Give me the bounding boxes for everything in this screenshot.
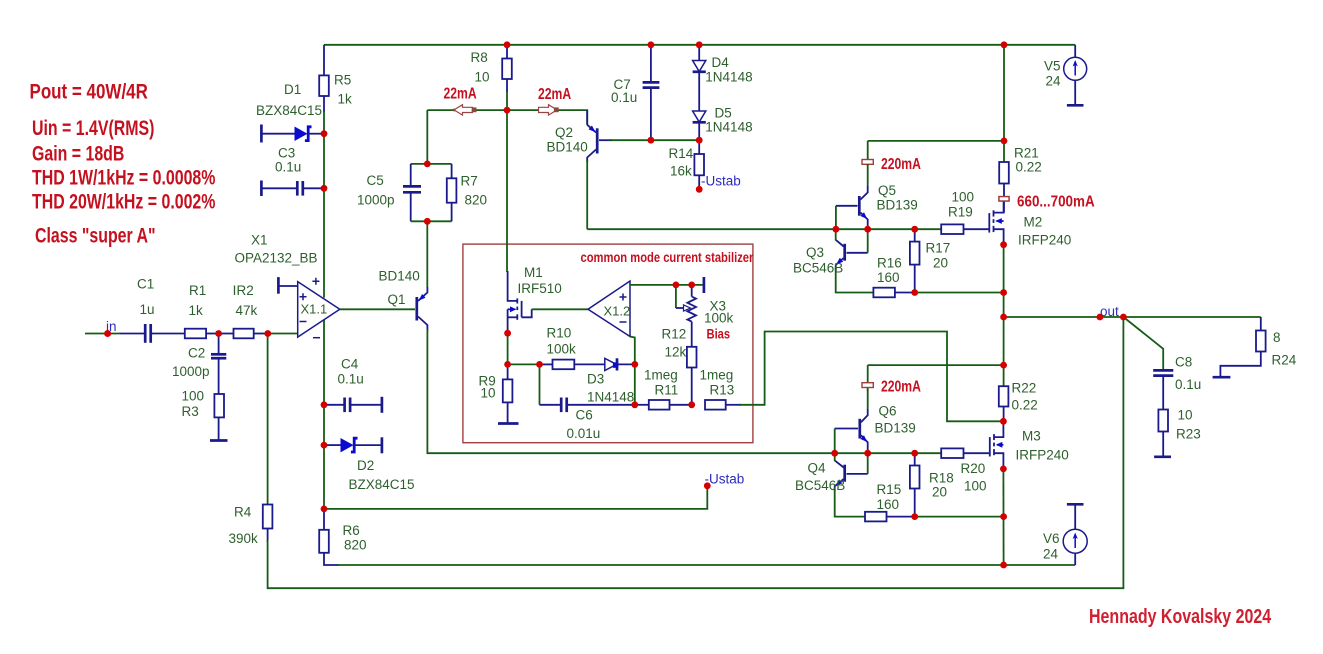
ground (R3): [210, 439, 228, 442]
node: M2 source junction: [1000, 241, 1007, 248]
svg-text:R4: R4: [234, 505, 252, 520]
wire: -Ustab line y=508.9: [324, 486, 707, 509]
resistor R24 8: [1220, 317, 1296, 377]
current probe marker rect redrawn above M2 drain wire: [999, 197, 1009, 201]
svg-text:0.01u: 0.01u: [567, 426, 601, 441]
capacitor C2 1000p: [172, 334, 226, 395]
diode D2 BZX84C15 (zener, terminal stub at right): [326, 437, 415, 492]
capacitor C1 1u: [120, 277, 185, 343]
node: C7 top rail junction: [648, 41, 655, 48]
node: D4 top rail junction: [696, 41, 703, 48]
resistor R2 47k: [219, 283, 268, 338]
node: C5/R7 top junction: [424, 161, 431, 168]
wire: out wire y=317: [1004, 316, 1261, 318]
resistor R1 1k: [185, 283, 219, 338]
wire: C5/R7 bottom to Q1 emitter: [426, 221, 428, 287]
resistor R23 10: [1158, 408, 1200, 457]
svg-text:0.22: 0.22: [1016, 160, 1042, 175]
wire: Q2 collector down to upper bias wire: [586, 160, 588, 229]
box: common mode current stabilizer: [463, 244, 754, 443]
svg-text:R6: R6: [343, 523, 360, 538]
node: D3/X1.2 inverting junction: [631, 361, 638, 368]
node: negative rail junction: [1000, 562, 1007, 569]
node: D2 junction: [321, 442, 328, 449]
node: X3 wiper junction: [673, 282, 680, 289]
svg-text:660...700mA: 660...700mA: [1017, 194, 1095, 211]
node: R18 top junction: [911, 450, 918, 457]
svg-text:R20: R20: [961, 461, 986, 476]
node -Ustab (bottom port): [704, 472, 744, 490]
resistor R16 160: [873, 256, 914, 298]
wire: D2 node to -Ustab node: [323, 445, 325, 509]
svg-text:R2: R2: [237, 283, 254, 298]
svg-text:M3: M3: [1022, 429, 1041, 444]
wire: lower bias wire continues to R20: [835, 452, 942, 454]
svg-text:20: 20: [933, 256, 948, 271]
diode D1 BZX84C15 (zener, terminal stub at left): [256, 82, 322, 143]
node: R22 top junction: [1000, 362, 1007, 369]
node: C3 junction: [321, 185, 328, 192]
svg-text:R24: R24: [1272, 353, 1297, 368]
svg-text:-Ustab: -Ustab: [705, 472, 745, 487]
node: Q6 base/Q4 collector junction: [831, 450, 838, 457]
node: out column junction: [1000, 314, 1007, 321]
wire: 22mA wire left branch: [427, 109, 507, 111]
svg-text:C1: C1: [137, 277, 154, 292]
wire: C6 branch down: [539, 364, 541, 404]
node out (port): [1097, 304, 1120, 320]
capacitor C5 1000p (parallel with R7): [357, 164, 452, 221]
wire: top positive rail y=44.8: [324, 44, 1075, 46]
svg-text:0.1u: 0.1u: [611, 90, 637, 105]
svg-text:IRFP240: IRFP240: [1016, 448, 1069, 463]
wire: rail corner down to R5: [323, 45, 325, 76]
svg-text:C2: C2: [188, 346, 205, 361]
svg-text:10: 10: [1178, 408, 1193, 423]
svg-text:820: 820: [465, 193, 488, 208]
wire: opamp X1.1 output to Q1 base: [340, 308, 415, 310]
node: C6/R11 junction: [631, 401, 638, 408]
resistor R6 820: [319, 509, 366, 565]
transistor Q4 BC546B (NPN, mirrored): [795, 453, 868, 493]
svg-text:Hennady Kovalsky 2024: Hennady Kovalsky 2024: [1089, 604, 1272, 627]
svg-text:1000p: 1000p: [357, 193, 395, 208]
mosfet M3 IRFP240: [990, 421, 1069, 469]
svg-text:Q1: Q1: [388, 292, 406, 307]
resistor R5 1k: [319, 73, 352, 113]
annotation signature: Hennady Kovalsky 2024: [1089, 604, 1272, 627]
wire: opamp X1.2 output to M1 gate: [532, 308, 588, 310]
current probe marker 220mA (upper): [862, 141, 921, 174]
op-amp X1.2 (mirrored, output at left): [588, 281, 630, 337]
svg-text:1N4148: 1N4148: [587, 390, 634, 405]
resistor R22 0.22: [999, 381, 1038, 422]
wire: R5 bottom to D1 node: [323, 112, 325, 134]
wire: upper bias wire y=229.2: [587, 228, 941, 230]
svg-text:M2: M2: [1024, 215, 1043, 230]
svg-text:X1: X1: [251, 233, 268, 248]
svg-text:1meg: 1meg: [644, 368, 678, 383]
resistor R7 820: [447, 164, 487, 221]
svg-text:R12: R12: [662, 327, 687, 342]
svg-text:C5: C5: [367, 173, 384, 188]
resistor R21 0.22: [999, 146, 1042, 213]
wire: Q1 collector down and right to lower bias wire: [427, 329, 835, 453]
svg-text:out: out: [1100, 304, 1119, 319]
svg-text:V6: V6: [1043, 531, 1060, 546]
node: R21 top junction: [1001, 138, 1008, 145]
svg-text:THD 20W/1kHz = 0.002%: THD 20W/1kHz = 0.002%: [32, 190, 216, 214]
svg-text:R3: R3: [182, 404, 199, 419]
node: R8 top rail junction: [504, 41, 511, 48]
resistor R14 16k: [669, 140, 705, 189]
svg-text:R15: R15: [877, 482, 902, 497]
terminal stub (pot top): [703, 277, 706, 293]
svg-text:0.1u: 0.1u: [1175, 377, 1201, 392]
wire: 22mA node down to C5/R7 top: [426, 110, 428, 164]
svg-text:20: 20: [932, 485, 947, 500]
capacitor C8 0.1u: [1153, 355, 1201, 410]
mosfet M1 IRF510 (gate at right): [508, 265, 562, 334]
wire: X1.2 noninverting input wire to pot: [630, 284, 704, 286]
svg-text:R23: R23: [1176, 427, 1201, 442]
wire: Q4 emitter down to bottom wire: [835, 489, 865, 517]
wire: D1 node to C3 node: [323, 134, 325, 189]
node: X3 top junction: [688, 282, 695, 289]
diode D3 1N4148: [587, 358, 635, 404]
svg-text:IRF510: IRF510: [518, 281, 562, 296]
svg-text:IRFP240: IRFP240: [1018, 233, 1071, 248]
svg-text:Bias: Bias: [707, 326, 731, 341]
svg-text:10: 10: [475, 70, 490, 85]
svg-text:D5: D5: [715, 106, 732, 121]
wire: C3 node down to opamp supply: [323, 188, 325, 297]
svg-text:C4: C4: [341, 357, 359, 372]
svg-text:220mA: 220mA: [881, 378, 921, 396]
svg-text:1k: 1k: [338, 92, 353, 107]
svg-text:1000p: 1000p: [172, 364, 210, 379]
wire: R10 node wire: [508, 363, 540, 365]
node: C7 bottom junction: [648, 137, 655, 144]
svg-text:R16: R16: [877, 256, 902, 271]
node: R11/R12/R13 junction: [688, 401, 695, 408]
node: R15/R18 junction: [911, 513, 918, 520]
svg-text:Uin = 1.4V(RMS): Uin = 1.4V(RMS): [32, 117, 154, 141]
svg-text:Q2: Q2: [555, 125, 573, 140]
svg-text:X1.2: X1.2: [604, 304, 631, 319]
resistor R3 100: [182, 389, 225, 441]
svg-text:R14: R14: [669, 146, 694, 161]
svg-text:820: 820: [344, 538, 367, 553]
capacitor C6 0.01u: [540, 398, 635, 442]
resistor R20 100: [941, 448, 990, 493]
annotation: Uin = 1.4V(RMS): [32, 117, 154, 141]
svg-text:C6: C6: [576, 408, 593, 423]
op-amp X1.1 OPA2132_BB: [235, 233, 340, 338]
transistor Q1 BD140 (PNP): [379, 269, 428, 332]
annotation: Gain = 18dB: [32, 142, 124, 166]
resistor R18 20: [910, 453, 954, 516]
svg-text:M1: M1: [524, 265, 543, 280]
ground (R24): [1213, 376, 1231, 379]
wire: negative rail y=565: [337, 564, 1075, 566]
annotation: THD 20W/1kHz = 0.002%: [32, 190, 216, 214]
svg-text:47k: 47k: [236, 303, 258, 318]
svg-text:BD139: BD139: [875, 421, 916, 436]
node: C5/R7 bottom junction: [424, 218, 431, 225]
annotation: THD 1W/1kHz = 0.0008%: [32, 166, 216, 190]
svg-text:R7: R7: [461, 174, 478, 189]
svg-text:common mode current stabilizer: common mode current stabilizer: [581, 250, 754, 265]
diode D5 1N4148: [693, 106, 753, 141]
node: in port: [104, 330, 111, 337]
node -Ustab (upper port): [696, 174, 741, 193]
svg-text:390k: 390k: [229, 531, 259, 546]
node: M3 bottom junction: [1000, 466, 1007, 473]
svg-text:Q6: Q6: [879, 404, 897, 419]
node in (port): [104, 319, 116, 337]
node: R1/R2/C2 junction: [215, 330, 222, 337]
wire: M1 source to R10 node: [507, 333, 509, 364]
svg-text:1N4148: 1N4148: [705, 70, 752, 85]
svg-text:OPA2132_BB: OPA2132_BB: [235, 251, 318, 266]
node: 22mA junction: [504, 107, 511, 114]
svg-text:BC546B: BC546B: [795, 478, 845, 493]
node: main column top rail junction: [1001, 41, 1008, 48]
node: -Ustab wire junction: [321, 506, 328, 513]
svg-text:100k: 100k: [547, 342, 577, 357]
resistor R13 1meg: [700, 368, 742, 410]
node: R22/M3 junction: [1000, 418, 1007, 425]
wire: input stub: [85, 333, 120, 335]
resistor R10 100k: [540, 326, 605, 370]
svg-text:10: 10: [481, 386, 496, 401]
svg-text:C8: C8: [1175, 355, 1192, 370]
current probe marker 220mA (lower): [862, 365, 921, 396]
wire: out column down to R22: [1003, 317, 1005, 386]
annotation: Pout = 40W/4R: [30, 80, 148, 104]
resistor R17 20: [910, 229, 950, 292]
svg-text:R1: R1: [189, 283, 206, 298]
svg-text:BD140: BD140: [547, 140, 588, 155]
current arrow 22mA (left): [444, 85, 477, 115]
svg-text:R21: R21: [1014, 146, 1039, 161]
resistor R9 10: [479, 364, 513, 423]
resistor R12 12k: [662, 327, 697, 405]
current source V6 24: [1043, 504, 1087, 565]
resistor R19 100: [941, 190, 989, 235]
svg-text:1k: 1k: [189, 303, 204, 318]
node: R9/R10 junction: [504, 361, 511, 368]
svg-text:D2: D2: [357, 458, 374, 473]
node: R2/R4 feedback junction: [264, 330, 271, 337]
wire: M3 drain down to bottom wire and rail: [1002, 469, 1004, 565]
svg-text:12k: 12k: [665, 345, 687, 360]
svg-text:Pout = 40W/4R: Pout = 40W/4R: [30, 80, 148, 104]
node: Q6 emitter/Q4 base junction: [864, 450, 871, 457]
svg-text:100: 100: [182, 389, 205, 404]
svg-text:R8: R8: [471, 50, 488, 65]
svg-text:100k: 100k: [704, 311, 734, 326]
wire: Q5 collector rail y=141: [868, 140, 1004, 142]
transistor Q3 BC546B (NPN, mirrored): [793, 229, 868, 275]
wire: feedback line bottom y=588.2: [268, 317, 1124, 588]
node: out/feedback junction: [1120, 314, 1127, 321]
svg-text:Q4: Q4: [808, 461, 827, 476]
svg-text:160: 160: [877, 270, 900, 285]
wire: R2 to opamp inverting input: [268, 333, 298, 335]
wire: M2 source down to out node: [1003, 245, 1005, 317]
node: D5/R14 junction: [696, 137, 703, 144]
wire: bottom wire of lower cell to main column: [915, 516, 1004, 518]
svg-text:22mA: 22mA: [444, 85, 477, 103]
resistor R11 1meg: [635, 368, 692, 410]
svg-text:R11: R11: [655, 383, 679, 398]
node: R16/R17 junction: [911, 289, 918, 296]
svg-text:Q5: Q5: [878, 183, 896, 198]
wire: Q6 collector rail y=365.1: [868, 364, 1004, 366]
svg-text:C3: C3: [278, 146, 295, 161]
svg-text:1N4148: 1N4148: [705, 120, 752, 135]
svg-text:24: 24: [1046, 74, 1062, 89]
svg-text:BD140: BD140: [379, 269, 420, 284]
svg-text:R17: R17: [926, 241, 951, 256]
transistor Q2 BD140 (PNP): [547, 110, 613, 162]
resistor R15 160: [865, 482, 915, 521]
transistor Q6 BD139 (NPN): [835, 389, 916, 453]
wire: diagonal from out junction to C8: [1123, 317, 1163, 370]
svg-text:160: 160: [877, 497, 900, 512]
wire: R13 out of box, up and right to M3 drain node: [739, 332, 1003, 422]
svg-text:BZX84C15: BZX84C15: [349, 477, 415, 492]
svg-text:8: 8: [1273, 330, 1281, 345]
svg-text:100: 100: [964, 479, 987, 494]
wire: Q2 base to C7/D5 node: [610, 139, 699, 141]
svg-text:D3: D3: [587, 372, 604, 387]
annotation: Class "super A": [35, 224, 156, 248]
svg-text:D1: D1: [284, 82, 301, 97]
svg-text:R22: R22: [1012, 381, 1037, 396]
transistor Q5 BD139 (NPN): [836, 164, 918, 229]
resistor R8 10: [471, 45, 512, 92]
node: upper cell bottom junction: [1000, 289, 1007, 296]
svg-text:THD 1W/1kHz = 0.0008%: THD 1W/1kHz = 0.0008%: [32, 166, 216, 190]
wire: Q3 emitter down to bottom wire: [836, 268, 874, 293]
node: M1 source junction: [504, 330, 511, 337]
ground (R9): [498, 422, 519, 425]
svg-text:BZX84C15: BZX84C15: [256, 103, 322, 118]
wire: bottom wire of upper cell to main column: [915, 292, 1004, 294]
svg-text:22mA: 22mA: [538, 85, 571, 103]
node: R17 top junction: [911, 226, 918, 233]
potentiometer X3 100k Bias: [676, 285, 734, 347]
svg-text:16k: 16k: [670, 164, 692, 179]
svg-text:220mA: 220mA: [881, 155, 921, 173]
wire: 22mA node down to M1 drain: [506, 110, 508, 272]
svg-text:100: 100: [952, 190, 975, 205]
svg-text:R5: R5: [334, 73, 351, 88]
ground (R23): [1154, 455, 1171, 458]
svg-text:R10: R10: [547, 326, 572, 341]
svg-text:X1.1: X1.1: [301, 302, 328, 317]
svg-text:V5: V5: [1044, 59, 1061, 74]
wire: X1.2 inverting input down to D3 node: [630, 337, 635, 365]
svg-text:24: 24: [1043, 547, 1059, 562]
resistor R4 390k (feedback): [229, 334, 273, 547]
svg-text:Gain = 18dB: Gain = 18dB: [32, 142, 124, 166]
svg-text:BD139: BD139: [877, 198, 918, 213]
capacitor C4 0.1u (terminal stub at right): [326, 357, 382, 413]
svg-text:1u: 1u: [140, 302, 155, 317]
svg-text:D4: D4: [712, 55, 730, 70]
wire: opamp bottom supply down to C4 node: [323, 320, 325, 405]
svg-text:0.1u: 0.1u: [275, 160, 301, 175]
current source V5 24: [1044, 45, 1087, 106]
current arrow 22mA (right): [538, 85, 571, 115]
capacitor C7 0.1u: [611, 45, 659, 140]
mosfet M2 IRFP240: [989, 196, 1071, 248]
capacitor C3 0.1u (terminal stub at left): [261, 146, 321, 197]
wire: main column from top rail to R21: [1003, 45, 1005, 162]
wire: C4 node to D2 node: [323, 405, 325, 445]
wire: R8 down to 22mA node: [506, 92, 508, 110]
node: Q5 base/Q3 collector junction: [833, 226, 840, 233]
node: lower cell bottom junction: [1000, 513, 1007, 520]
svg-text:R18: R18: [929, 471, 954, 486]
node: D1 cathode junction: [321, 130, 328, 137]
diode D4 1N4148: [693, 45, 753, 111]
svg-text:Q3: Q3: [806, 245, 824, 260]
svg-text:R19: R19: [948, 205, 973, 220]
svg-text:1meg: 1meg: [700, 368, 734, 383]
node: Q5 emitter/Q3 base junction: [864, 226, 871, 233]
svg-text:R13: R13: [710, 383, 735, 398]
svg-text:0.1u: 0.1u: [338, 372, 364, 387]
node: R10/C6 junction: [536, 361, 543, 368]
svg-text:-Ustab: -Ustab: [701, 174, 741, 189]
svg-text:0.22: 0.22: [1012, 398, 1038, 413]
node: C4 junction: [321, 401, 328, 408]
wire: 22mA wire right branch: [507, 110, 587, 125]
svg-text:Class "super A": Class "super A": [35, 224, 156, 248]
wire: D3 node down to C6 node: [634, 364, 636, 404]
current probe marker 660...700mA: [999, 194, 1095, 211]
